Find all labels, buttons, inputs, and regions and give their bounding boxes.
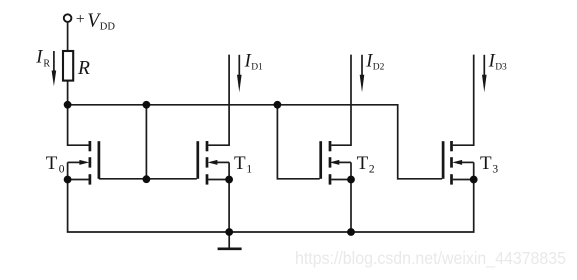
svg-text:T: T — [46, 153, 58, 174]
svg-text:1: 1 — [246, 164, 252, 176]
svg-text:T: T — [234, 153, 246, 174]
svg-text:+: + — [76, 11, 85, 28]
svg-text:I: I — [35, 47, 43, 67]
svg-text:D1: D1 — [251, 62, 263, 72]
svg-text:2: 2 — [369, 164, 375, 176]
svg-text:T: T — [480, 153, 492, 174]
svg-text:R: R — [43, 58, 50, 69]
svg-text:https://blog.csdn.net/weixin_4: https://blog.csdn.net/weixin_44378835 — [295, 248, 566, 269]
svg-text:R: R — [77, 58, 90, 79]
svg-text:DD: DD — [100, 22, 116, 33]
svg-text:D2: D2 — [373, 62, 385, 72]
svg-text:3: 3 — [492, 164, 498, 176]
svg-text:D3: D3 — [495, 62, 507, 72]
svg-text:0: 0 — [59, 164, 65, 176]
svg-text:T: T — [357, 153, 369, 174]
